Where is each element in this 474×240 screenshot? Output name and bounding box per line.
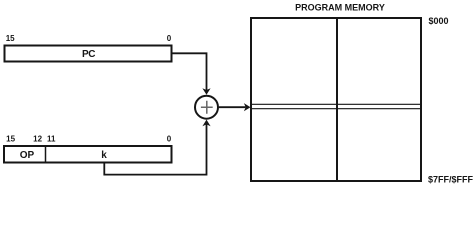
svg-text:15: 15	[6, 135, 15, 144]
svg-text:0: 0	[167, 135, 172, 144]
register PC	[5, 46, 172, 62]
svg-text:15: 15	[6, 34, 15, 43]
wire k to adder	[104, 124, 206, 175]
arrowhead into program memory	[244, 103, 251, 111]
adder U1	[195, 96, 218, 119]
adder plus sign	[201, 101, 213, 114]
wire adder to program memory	[219, 106, 246, 108]
svg-text:12: 12	[33, 135, 42, 144]
OP/k field divider	[45, 146, 47, 163]
program memory box	[251, 18, 421, 181]
program memory column divider	[336, 18, 338, 181]
svg-text:$000: $000	[429, 16, 449, 26]
addressed row line (lower)	[252, 108, 420, 110]
arrowhead into adder bottom	[202, 120, 210, 127]
svg-text:11: 11	[47, 135, 56, 144]
svg-text:OP: OP	[20, 150, 35, 161]
svg-text:PC: PC	[82, 49, 95, 60]
svg-text:PROGRAM MEMORY: PROGRAM MEMORY	[295, 2, 385, 12]
addressed row line (upper)	[252, 103, 420, 105]
svg-text:$7FF/$FFF: $7FF/$FFF	[428, 174, 474, 184]
svg-text:0: 0	[167, 34, 172, 43]
register OP/k	[4, 146, 172, 163]
svg-text:k: k	[101, 150, 107, 161]
arrowhead into adder top	[202, 88, 210, 95]
wire PC to adder	[173, 53, 207, 91]
